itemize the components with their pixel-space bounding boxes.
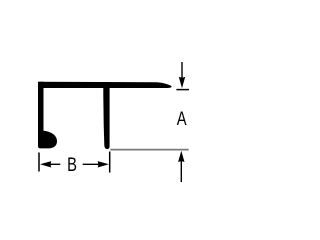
dimension B left extension line (38, 153, 40, 172)
profile middle leg (103, 82, 109, 149)
dimension B right extension line (109, 152, 111, 173)
dimension A up arrow stem (180, 161, 182, 182)
dimension B left arrow stem (50, 163, 60, 165)
dimension B right arrow stem (83, 163, 99, 165)
svg-text:B: B (67, 153, 77, 176)
dimension A up arrowhead (178, 151, 184, 162)
dimension A down arrowhead (179, 77, 185, 88)
dimension A down arrow stem (181, 62, 183, 78)
svg-text:A: A (177, 107, 187, 130)
dimension A top tick (176, 89, 189, 91)
profile left leg (38, 82, 44, 140)
dimension B right arrowhead (98, 161, 109, 167)
surface reference line (110, 149, 188, 151)
profile left foot bulb (38, 128, 57, 148)
profile top flange (38, 82, 172, 88)
dimension B left arrowhead (40, 161, 51, 167)
